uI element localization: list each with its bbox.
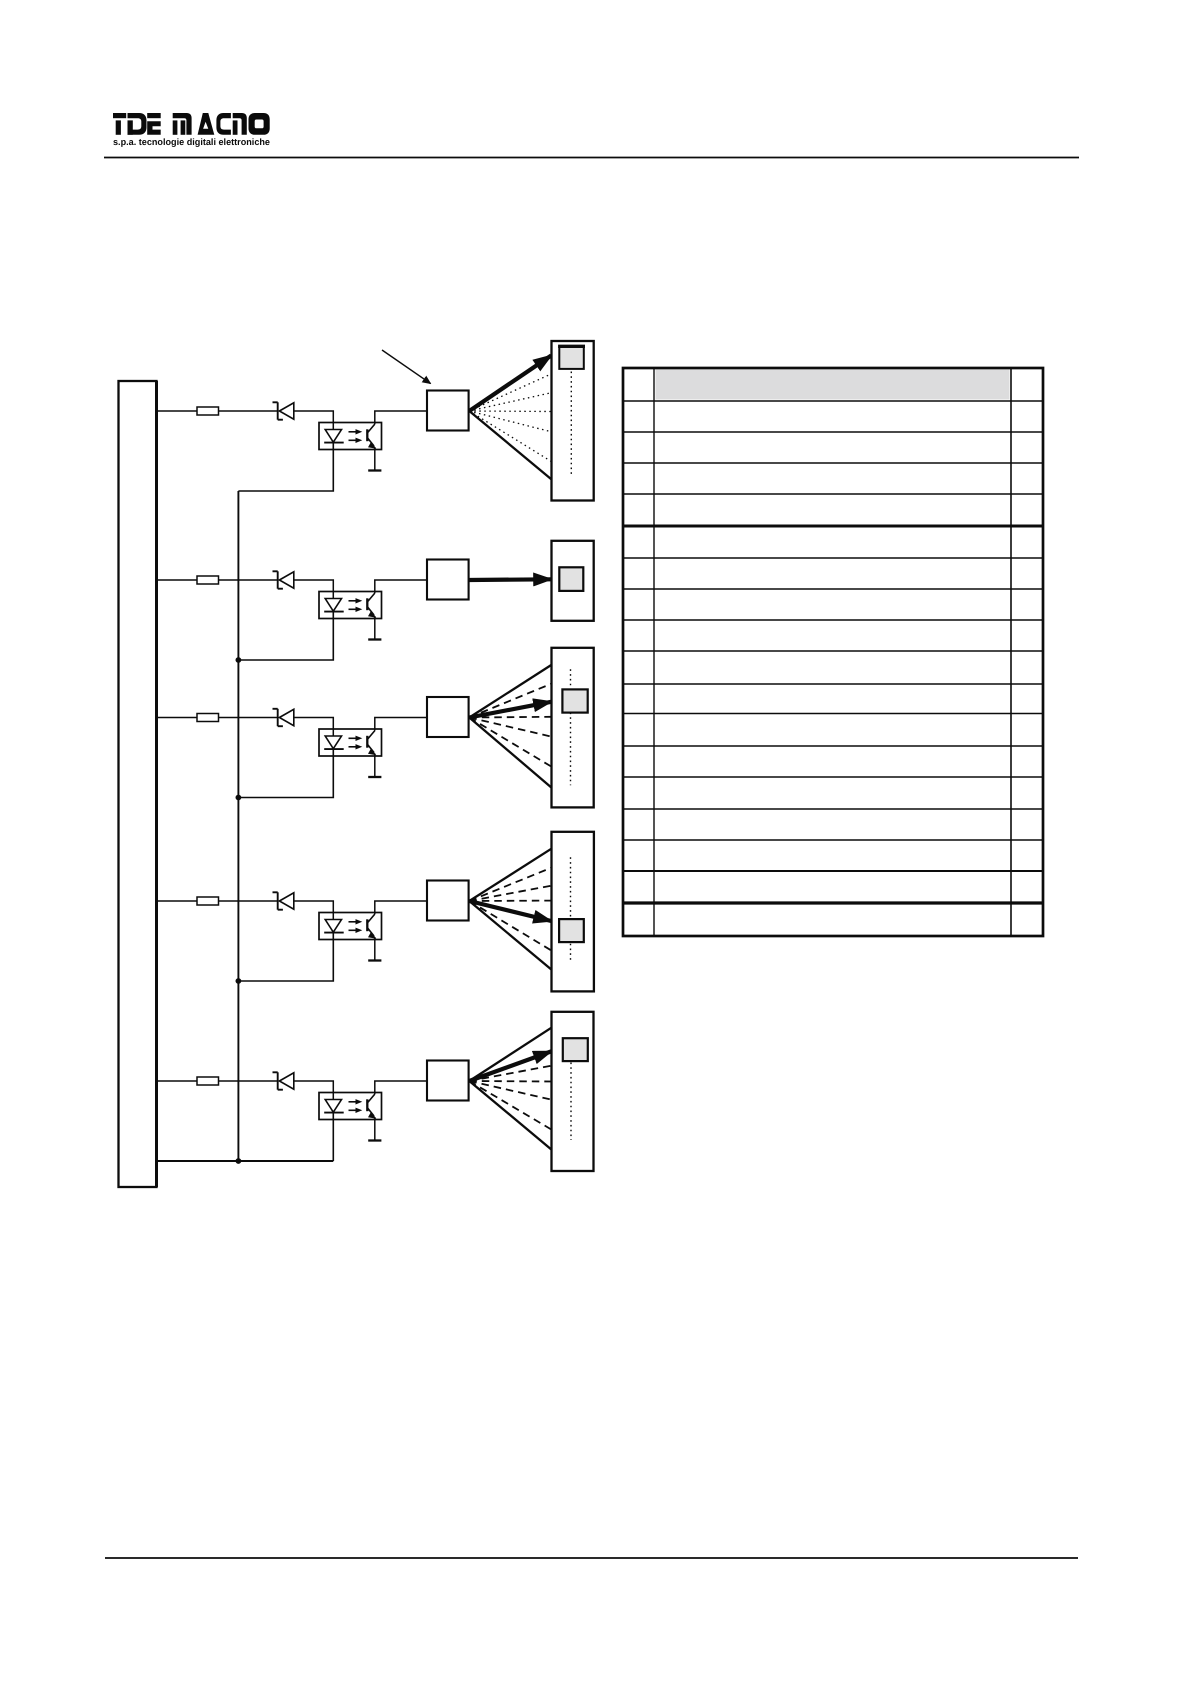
fan ray solid — [469, 848, 552, 901]
fan ray dashed — [469, 901, 552, 951]
fan ray dashed — [469, 1081, 552, 1130]
wire U1 LED cathode return to bus — [238, 443, 333, 491]
TDE MACNO logo — [113, 113, 270, 135]
annotation arrow to logic block — [382, 350, 431, 384]
fan ray dashed — [469, 718, 552, 737]
wire D3 to optocoupler LED anode — [294, 718, 334, 737]
fan ray dashed — [469, 718, 552, 768]
selection arrow channel 3 — [469, 702, 551, 718]
common bar (0V) channel 1 — [368, 469, 381, 471]
optocoupler U2 light arrows — [349, 598, 363, 612]
fan ray dotted — [469, 411, 552, 462]
wire Q1 emitter to common — [374, 447, 376, 471]
common bar (0V) channel 3 — [368, 776, 381, 778]
optocoupler U4 light arrows — [349, 919, 363, 933]
table header shaded cell — [656, 370, 1010, 400]
wire D4 to optocoupler LED anode — [294, 901, 334, 920]
wire Q3 collector to logic block — [375, 718, 427, 731]
resistor R4 — [197, 897, 219, 905]
zener diode D4 — [273, 892, 294, 909]
fan ray solid — [469, 718, 552, 789]
zener diode D1 — [273, 402, 294, 419]
selector bar channel 1 — [552, 341, 594, 501]
wire R1 to zener D1 — [219, 410, 278, 412]
wire input channel 1: terminal to resistor — [157, 410, 198, 412]
logic block (input circuit) channel 1 — [427, 391, 469, 431]
connector terminal block J1 — [119, 381, 157, 1187]
fan ray dotted — [469, 374, 552, 412]
fan ray solid — [469, 1027, 552, 1081]
optocoupler U5 body — [319, 1093, 382, 1120]
wire U5 LED cathode return to bottom rail — [332, 1113, 334, 1161]
svg-text:s.p.a. tecnologie digitali ele: s.p.a. tecnologie digitali elettroniche — [113, 137, 270, 147]
wire input channel 3: terminal to resistor — [157, 717, 198, 719]
wire Q4 collector to logic block — [375, 901, 427, 914]
footer rule — [105, 1557, 1078, 1559]
wire U3 LED cathode return to bus — [238, 749, 333, 797]
common bar (0V) channel 2 — [368, 638, 381, 640]
wire input channel 4: terminal to resistor — [157, 900, 198, 902]
resistor R3 — [197, 714, 219, 722]
optocoupler U1 light arrows — [349, 429, 363, 443]
fan ray solid — [469, 1081, 552, 1150]
zener diode D5 — [273, 1072, 294, 1089]
fan ray dotted — [469, 410, 552, 413]
wire R5 to zener D5 — [219, 1080, 278, 1082]
common bar (0V) channel 5 — [368, 1139, 381, 1141]
optocoupler U2 phototransistor Q2 — [367, 593, 376, 618]
wire Q4 emitter to common — [374, 937, 376, 961]
wire R2 to zener D2 — [219, 579, 278, 581]
optocoupler U5 LED — [324, 1100, 344, 1113]
wire R4 to zener D4 — [219, 900, 278, 902]
optocoupler U4 phototransistor Q4 — [367, 914, 376, 939]
selector bar channel 2 — [552, 541, 594, 621]
logic block (input circuit) channel 4 — [427, 881, 469, 921]
wire U4 LED cathode return to bus — [238, 933, 333, 981]
wire Q3 emitter to common — [374, 754, 376, 778]
zener diode D3 — [273, 709, 294, 726]
fan ray dashed — [469, 867, 552, 901]
fan ray dashed — [469, 1081, 552, 1100]
selector travel dotted line channel 5 — [570, 1063, 572, 1141]
selector bar channel 4 — [552, 832, 594, 992]
wire Q2 emitter to common — [374, 616, 376, 640]
junction dot ch2 return — [236, 657, 242, 663]
selector travel dotted line channel 3 — [570, 669, 572, 785]
selection arrow channel 2 — [469, 577, 551, 582]
wire Q1 collector to logic block — [375, 411, 427, 424]
optocoupler U3 phototransistor Q3 — [367, 731, 376, 756]
selected position square channel 2 — [559, 567, 583, 591]
wire U2 LED cathode return to bus — [238, 612, 333, 660]
common bar (0V) channel 4 — [368, 959, 381, 961]
table grid — [623, 368, 1043, 936]
common return bus wire — [237, 491, 239, 1161]
wire Q2 collector to logic block — [375, 580, 427, 593]
fan ray dashed — [469, 886, 552, 902]
logic block (input circuit) channel 5 — [427, 1061, 469, 1101]
optocoupler U3 LED — [324, 736, 344, 749]
selected position square channel 3 — [562, 689, 587, 712]
selected position square channel 5 — [563, 1038, 588, 1061]
optocoupler U4 LED — [324, 920, 344, 933]
optocoupler U2 LED — [324, 599, 344, 612]
optocoupler U1 phototransistor Q1 — [367, 424, 376, 449]
wire input channel 5: terminal to resistor — [157, 1080, 198, 1082]
wire D2 to optocoupler LED anode — [294, 580, 334, 599]
fan ray dashed — [469, 900, 552, 902]
junction dot bottom rail — [236, 1158, 242, 1164]
fan ray dashed — [469, 1080, 552, 1083]
junction dot ch4 return — [236, 978, 242, 984]
optocoupler U5 phototransistor Q5 — [367, 1094, 376, 1119]
logic block (input circuit) channel 3 — [427, 697, 469, 737]
wire Q5 collector to logic block — [375, 1081, 427, 1094]
resistor R2 — [197, 576, 219, 584]
selector bar channel 5 — [552, 1012, 594, 1171]
selector travel dotted line channel 1 — [570, 372, 572, 476]
wire D5 to optocoupler LED anode — [294, 1081, 334, 1100]
selected position square channel 1 — [558, 346, 585, 369]
fan ray dashed — [469, 716, 552, 719]
selected position square channel 4 — [559, 919, 584, 942]
wire input channel 2: terminal to resistor — [157, 579, 198, 581]
optocoupler U1 body — [319, 423, 382, 450]
optocoupler U1 LED — [324, 430, 344, 443]
optocoupler U5 light arrows — [349, 1099, 363, 1113]
selection arrow channel 5 — [469, 1051, 551, 1081]
junction dot ch3 return — [236, 795, 242, 801]
selector travel dotted line channel 4 — [570, 857, 572, 961]
fan ray dotted — [469, 393, 552, 412]
bottom rail wire — [157, 1160, 334, 1162]
resistor R5 — [197, 1077, 219, 1085]
fan ray dotted — [469, 411, 552, 432]
wire D1 to optocoupler LED anode — [294, 411, 334, 430]
resistor R1 — [197, 407, 219, 415]
optocoupler U3 light arrows — [349, 736, 363, 750]
fan ray solid — [469, 901, 552, 970]
wire R3 to zener D3 — [219, 717, 278, 719]
selector bar channel 3 — [552, 648, 594, 808]
optocoupler U3 body — [319, 729, 382, 756]
selection arrow channel 1 — [469, 356, 551, 412]
fan ray solid — [469, 664, 552, 717]
selection arrow channel 4 — [469, 901, 551, 921]
fan ray solid — [469, 411, 552, 480]
fan ray dashed — [469, 1066, 552, 1082]
optocoupler U4 body — [319, 913, 382, 940]
optocoupler U2 body — [319, 592, 382, 619]
wire Q5 emitter to common — [374, 1117, 376, 1141]
header rule — [104, 157, 1079, 159]
logic block (input circuit) channel 2 — [427, 560, 469, 600]
zener diode D2 — [273, 571, 294, 588]
fan ray dashed — [469, 683, 552, 717]
